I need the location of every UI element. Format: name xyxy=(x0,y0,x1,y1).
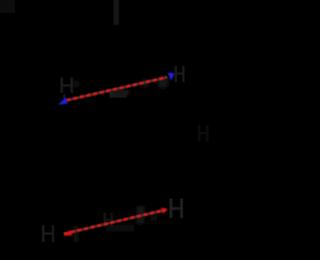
node H bottom-middle xyxy=(104,213,114,228)
node H top-left xyxy=(61,78,74,94)
node H top-right xyxy=(175,66,185,82)
node H bottom-right xyxy=(170,199,184,219)
wire top vertical bond xyxy=(113,0,118,25)
wire bottom arrow red dashes xyxy=(64,210,166,234)
wire bond smudge D xyxy=(74,226,78,242)
wire bond smudge G xyxy=(150,210,157,221)
node top arrowhead right (blue) xyxy=(168,73,175,81)
wire bottom arrow shaft underlayer xyxy=(64,210,166,234)
node H bottom-left xyxy=(42,225,54,242)
wire bond smudge F xyxy=(137,206,145,224)
wire top arrow red dashes xyxy=(67,77,168,100)
wire faint bond below bottom line xyxy=(106,225,134,232)
node bottom arrowhead left (red) xyxy=(64,230,73,235)
wire bond smudge B2 xyxy=(143,79,149,87)
node bottom arrowhead right (red) xyxy=(161,208,168,214)
wire bond smudge E xyxy=(72,80,80,88)
node corner-label xyxy=(0,0,15,13)
wire bond smudge B xyxy=(114,89,130,97)
wire bond smudge C xyxy=(158,76,169,89)
wire bond smudge A xyxy=(110,92,127,98)
wire faint blue bond above left arrowhead xyxy=(64,94,66,100)
wire top arrow shaft underlayer xyxy=(67,77,168,100)
node top arrowhead left (blue) xyxy=(58,98,68,105)
node H right-middle faint xyxy=(198,125,209,141)
